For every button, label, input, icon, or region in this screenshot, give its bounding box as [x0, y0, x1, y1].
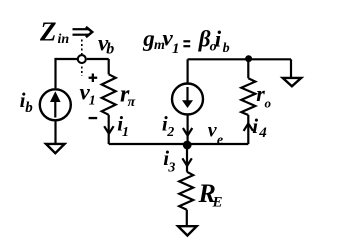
wire r_o branch lower [247, 115, 249, 144]
current source ib circle [40, 89, 71, 120]
svg-text:b: b [106, 40, 114, 57]
junction dot top (collector node) [245, 55, 252, 62]
dependent current source circle [172, 84, 203, 115]
resistor RE zigzag [179, 172, 193, 210]
svg-text:π: π [128, 95, 136, 110]
wire bottom horizontal (emitter node) [109, 143, 249, 145]
svg-text:g: g [142, 26, 155, 51]
wire dependent source lower [187, 115, 189, 144]
svg-text:b: b [25, 100, 33, 116]
label minus [89, 117, 98, 119]
node vb open circle [78, 55, 86, 63]
dependent current source arrow (down) [186, 87, 188, 101]
wire RE to ground [186, 210, 188, 226]
resistor r_pi zigzag [102, 74, 116, 115]
wire left vertical lower [54, 121, 56, 143]
label plus [89, 77, 98, 79]
svg-text:E: E [212, 195, 223, 211]
svg-text:b: b [223, 41, 230, 56]
svg-text:Z: Z [39, 17, 57, 47]
current arrow i4 (up) [244, 123, 253, 130]
current arrow i3 (down) [182, 158, 191, 166]
resistor r_o zigzag [241, 78, 255, 115]
wire r_pi branch lower [108, 115, 110, 144]
current arrow i1 (down) [104, 126, 113, 134]
junction dot ve (emitter node) [183, 141, 192, 150]
wire r_pi branch upper [108, 59, 110, 74]
svg-text:4: 4 [258, 125, 267, 141]
wire emitter branch to RE [186, 144, 188, 172]
svg-text:in: in [58, 32, 70, 47]
svg-text:1: 1 [172, 41, 180, 57]
dotted node indicator line through vb [81, 40, 83, 77]
ground bottom [178, 226, 197, 235]
svg-text:o: o [265, 96, 272, 111]
svg-text:i: i [252, 114, 258, 138]
ground top right [283, 78, 302, 86]
svg-text:i: i [215, 26, 222, 51]
wire r_o branch upper [247, 59, 249, 78]
wire dependent source upper [187, 59, 189, 83]
svg-text:3: 3 [167, 160, 175, 175]
wire top-left horizontal (vb node wire) [56, 58, 109, 60]
svg-text:e: e [217, 133, 223, 148]
wire left vertical upper [54, 58, 56, 88]
svg-text:1: 1 [89, 94, 96, 109]
current source ib arrow (up) [54, 101, 56, 118]
ground left [46, 144, 65, 153]
svg-text:2: 2 [166, 125, 174, 140]
wire top middle horizontal [188, 58, 291, 60]
current arrow i2 (down) [183, 128, 192, 136]
svg-text:1: 1 [122, 125, 129, 140]
wire right ground drop [290, 59, 292, 77]
input impedance double arrow [73, 27, 93, 37]
